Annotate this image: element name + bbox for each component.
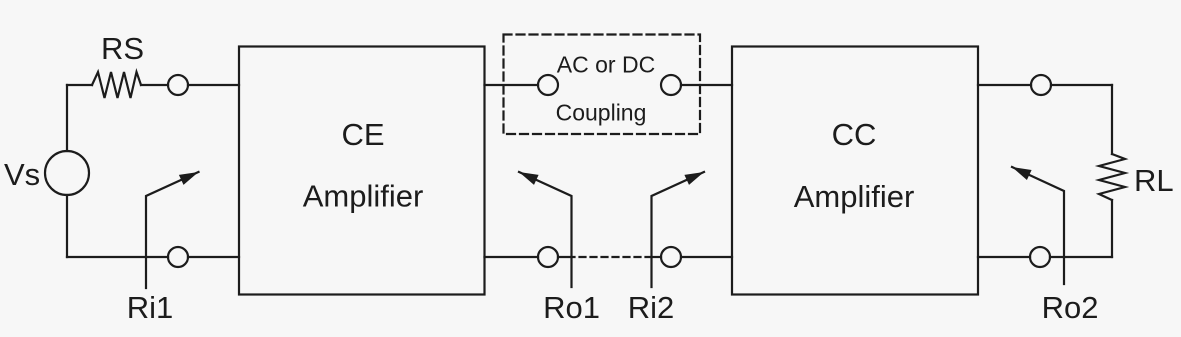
svg-text:Amplifier: Amplifier <box>794 179 915 214</box>
arrow Ri1 line <box>146 172 199 288</box>
wire stub right of dashed link <box>652 256 662 258</box>
svg-text:RL: RL <box>1134 163 1174 198</box>
svg-text:Coupling: Coupling <box>556 100 647 126</box>
arrowhead Ro1 <box>519 172 539 185</box>
amplifier box CC <box>732 47 978 295</box>
dashed link Ro1 to Ri2 <box>572 256 652 258</box>
wire Vs top to corner <box>66 85 68 151</box>
svg-text:Ro1: Ro1 <box>543 290 600 325</box>
terminal CE out bottom <box>538 247 558 267</box>
wire right down to RL <box>1111 85 1113 154</box>
svg-text:RS: RS <box>101 31 144 66</box>
wire stub left of dashed link <box>558 256 572 258</box>
terminal input bottom <box>168 247 188 267</box>
amplifier box CE <box>239 47 485 295</box>
wire CE out bottom <box>485 256 539 258</box>
svg-text:Vs: Vs <box>4 157 40 192</box>
wire output top <box>1051 84 1112 86</box>
wire CE out top <box>485 84 539 86</box>
terminal CE out top <box>538 75 558 95</box>
wire to CC box top <box>681 84 732 86</box>
wire bottom left <box>67 256 168 258</box>
resistor RL <box>1099 154 1125 200</box>
svg-text:Amplifier: Amplifier <box>303 179 424 214</box>
arrowhead Ri1 <box>179 172 199 185</box>
wire bottom right <box>1050 256 1112 258</box>
arrow Ro2 line <box>1012 167 1064 284</box>
wire terminal to CE box <box>188 84 239 86</box>
wire CC in bottom <box>681 256 732 258</box>
svg-text:CC: CC <box>832 117 877 152</box>
wire RL to bottom <box>1111 200 1113 257</box>
wire CC out top <box>978 84 1031 86</box>
svg-text:Ri2: Ri2 <box>628 290 675 325</box>
coupling box dashed <box>504 35 701 135</box>
svg-text:AC or DC: AC or DC <box>557 52 655 78</box>
arrowhead Ro2 <box>1012 167 1032 180</box>
arrow Ro1 line <box>519 172 572 287</box>
wire RS to input terminal <box>141 84 168 86</box>
source Vs <box>45 151 89 195</box>
wire to CC box bottom <box>978 256 1030 258</box>
svg-text:CE: CE <box>341 117 384 152</box>
svg-text:Ro2: Ro2 <box>1042 290 1099 325</box>
terminal CC in bottom <box>661 247 681 267</box>
wire Vs bottom to corner <box>66 195 68 257</box>
wire terminal to CE box bottom <box>188 256 239 258</box>
terminal CC in top <box>661 75 681 95</box>
wire corner to RS <box>67 84 92 86</box>
terminal input top <box>168 75 188 95</box>
arrow Ri2 line <box>652 172 705 287</box>
arrowhead Ri2 <box>684 172 704 185</box>
terminal CC out top <box>1031 75 1051 95</box>
resistor RS <box>92 72 141 98</box>
svg-text:Ri1: Ri1 <box>127 290 174 325</box>
terminal CC out bottom <box>1030 247 1050 267</box>
